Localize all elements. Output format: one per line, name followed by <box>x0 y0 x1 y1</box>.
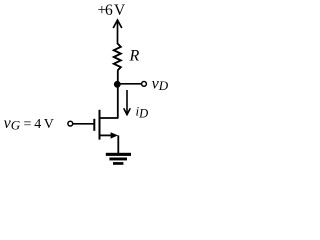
node dot <box>114 81 121 88</box>
transistor Q1 drain lead <box>100 117 119 119</box>
svg-text:iD: iD <box>136 103 149 120</box>
resistor R <box>114 44 121 71</box>
transistor Q1 gate bar <box>93 119 95 131</box>
svg-text:vD: vD <box>152 76 169 94</box>
wire: node to output terminal <box>118 83 142 85</box>
transistor Q1 source arrowhead <box>111 132 118 138</box>
input terminal circle <box>68 121 73 126</box>
current arrow iD <box>124 90 131 115</box>
wire: resistor bottom to drain rail <box>117 71 119 119</box>
terminal vD open circle <box>142 82 147 87</box>
svg-text:R: R <box>129 48 140 65</box>
supply arrow <box>113 20 122 44</box>
wire: source to ground <box>117 135 119 153</box>
transistor Q1 source lead <box>100 134 113 136</box>
svg-text:vG= 4 V: vG= 4 V <box>4 115 54 133</box>
transistor Q1 channel <box>99 110 101 140</box>
wire: input terminal to gate <box>73 123 94 125</box>
svg-text:+6 V: +6 V <box>98 2 126 19</box>
ground <box>106 153 131 165</box>
